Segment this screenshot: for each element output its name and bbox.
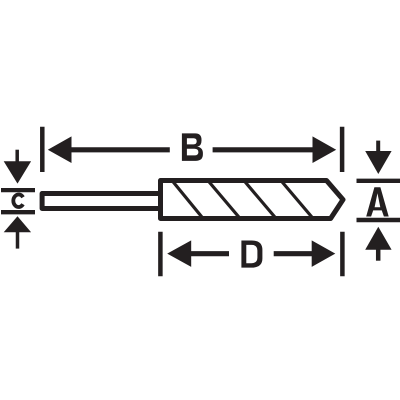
dimension c top tick [1,188,35,192]
dimension D label [241,241,262,268]
dimension D left shaft [190,251,229,256]
dimension c bottom tick [1,210,35,214]
dimension D right arrowhead [312,240,336,267]
dimension B left arrowhead [48,136,72,163]
dimension B left shaft [70,147,170,152]
dimension B right tick [340,127,345,172]
dimension D left tick [158,232,163,276]
dimension A up arrowhead [365,227,391,250]
dimension c up arrowhead [4,216,31,232]
flute hatch line 4 [281,181,313,219]
dimension A label [366,187,389,216]
dimension B right arrowhead [313,136,337,163]
dimension B right shaft [213,147,314,152]
dimension D left arrowhead [167,240,191,267]
dimension B label [182,133,203,161]
dimension D right tick [340,232,345,276]
flute hatch line 2 [208,181,240,219]
dimension c down arrow shaft [15,150,19,163]
dimension c label [13,195,23,207]
dimension A down arrowhead [365,151,391,174]
dimension c down arrowhead [4,161,31,183]
dimension B left tick [40,127,45,172]
dimension A top tick [357,179,400,183]
dimension A down arrow shaft [376,141,380,153]
dimension A bottom tick [357,218,400,222]
flute hatch line 3 [244,181,276,219]
dimension A up arrow shaft [376,249,381,261]
flute hatch line 1 [172,181,203,219]
dimension D right shaft [274,251,314,256]
shank outline [42,194,160,209]
dimension c up arrow shaft [16,231,20,249]
flute body outline [161,181,344,219]
